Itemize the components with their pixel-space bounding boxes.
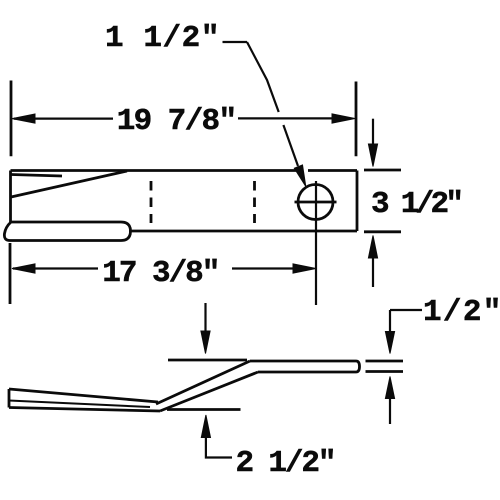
dimension 2 1/2: up arrowhead: [201, 415, 210, 438]
svg-text:19 7/8": 19 7/8": [117, 104, 236, 139]
svg-text:17 3/8": 17 3/8": [102, 256, 218, 291]
side view: bend top diagonal: [156, 361, 250, 404]
dimension 2 1/2: bottom reference line: [167, 408, 241, 411]
blade top view: right edge: [356, 171, 359, 232]
dimension 17 3/8: right arrowhead: [293, 264, 316, 273]
dimension 1/2: up arrowhead: [385, 377, 394, 399]
dimension 3 1/2: top arrow shaft: [372, 119, 374, 147]
bend line 2 (dashed): [253, 181, 256, 223]
dimension 17 3/8: right dim line: [232, 267, 296, 269]
blade top view: top edge (left segment, gap where leader arrow crosses): [11, 169, 297, 172]
side view: wedge middle (bevel) line: [9, 401, 150, 408]
dimension 17 3/8: left extension line: [9, 243, 12, 304]
side view: wedge bottom line: [9, 408, 160, 412]
dimension 17 3/8: left dim line: [13, 267, 98, 269]
blade bevel diagonal line: [11, 171, 127, 197]
dimension 19 7/8: left arrowhead: [12, 114, 35, 123]
dimension 19 7/8: right arrowhead: [332, 114, 355, 123]
side view: right end cap (rounded): [356, 361, 360, 372]
bolt hole centerline vertical (extends down to 17 3/8 dimension): [315, 181, 317, 305]
svg-text:2 1/2": 2 1/2": [236, 446, 335, 481]
dimension 17 3/8: left arrowhead: [12, 264, 35, 273]
blade cutting lip (rounded pill shape, lower left): [4, 222, 130, 241]
bolt hole crosshair horizontal: [295, 201, 337, 204]
dimension 1/2: top thickness extension line: [366, 360, 404, 363]
side view: wedge left end cap: [8, 389, 11, 408]
dimension 2 1/2: down arrowhead: [201, 331, 210, 354]
dimension 1/2: bottom thickness extension line: [366, 370, 404, 373]
blade top view: bottom edge: [129, 230, 357, 233]
bend line 1 (dashed): [150, 181, 153, 223]
bolt hole circle: [298, 185, 333, 220]
dimension 19 7/8: right dim line: [238, 117, 350, 119]
dimension 19 7/8: right extension line: [355, 82, 358, 157]
dimension 3 1/2: bottom extension line: [364, 230, 401, 233]
leader 1 1/2: horizontal segment: [223, 41, 248, 43]
dimension 2 1/2: top reference line: [168, 359, 247, 362]
dimension 2 1/2: down arrow shaft: [204, 303, 206, 332]
dimension 3 1/2: bottom arrow shaft: [372, 258, 374, 287]
dimension 2 1/2: up arrow shaft and elbow to label: [206, 437, 232, 458]
blade top view: top edge (right segment): [308, 169, 357, 172]
dimension 1/2: up arrow shaft: [389, 398, 391, 424]
side view: right section bottom edge: [258, 371, 356, 374]
side view: wedge top line: [9, 389, 158, 402]
dimension 1/2: down arrow shaft: [389, 310, 391, 333]
dimension 1/2: leader elbow from label: [390, 309, 422, 311]
dimension 1/2: down arrowhead: [385, 332, 394, 354]
leader 1 1/2: arrowhead at hole: [294, 165, 306, 187]
svg-text:1 1/2": 1 1/2": [105, 21, 220, 56]
side view: right section top edge: [250, 360, 356, 363]
dimension 3 1/2: bottom arrowhead: [368, 236, 377, 259]
dimension 3 1/2: top extension line: [364, 169, 401, 172]
leader 1 1/2: diagonal upper part (gap at dim line): [247, 42, 279, 112]
blade bevel short upper line: [11, 175, 62, 177]
dimension 3 1/2: top arrowhead: [368, 144, 377, 167]
leader 1 1/2: diagonal lower part: [283, 125, 298, 166]
dimension 19 7/8: left extension line: [10, 81, 13, 157]
blade top view: left edge: [9, 171, 12, 223]
side view: bend bottom diagonal: [160, 372, 258, 411]
dimension 19 7/8: left dim line: [14, 117, 113, 119]
svg-text:1/2": 1/2": [423, 295, 500, 330]
svg-text:3 1/2": 3 1/2": [371, 187, 460, 222]
